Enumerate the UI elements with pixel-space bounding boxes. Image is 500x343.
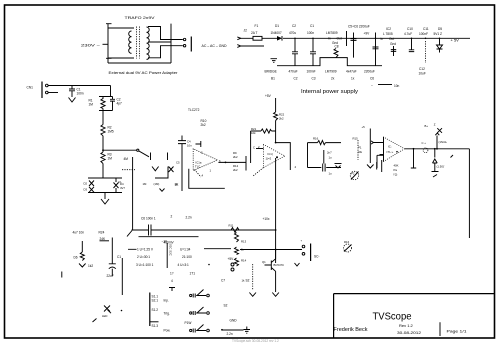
svg-text:~: ~ [371, 84, 373, 88]
wire output [405, 148, 470, 150]
connector CN1 [41, 82, 43, 99]
svg-text:1k2: 1k2 [88, 264, 93, 268]
svg-text:2k2: 2k2 [201, 123, 206, 127]
wire gnd 2.2n [221, 329, 223, 331]
node rail junction dots [294, 38, 440, 40]
transformer T1 primary winding [129, 31, 132, 53]
svg-text:Rev 1.2: Rev 1.2 [399, 323, 414, 328]
svg-text:S1C S2C: S1C S2C [169, 244, 173, 256]
wire divider tap [103, 136, 137, 152]
svg-text:P2: P2 [351, 172, 355, 176]
svg-text:D3: D3 [84, 188, 88, 192]
wire input [48, 86, 110, 97]
ground symbol [244, 327, 251, 334]
svg-text:Z: Z [434, 123, 436, 127]
wire mains lead [103, 43, 109, 45]
svg-text:+5V: +5V [228, 257, 235, 261]
svg-text:4M: 4M [124, 157, 129, 161]
svg-text:D5: D5 [438, 27, 442, 31]
svg-text:S2: S2 [224, 304, 228, 308]
svg-text:IC2: IC2 [386, 27, 391, 31]
diode D6 up [436, 148, 438, 150]
svg-text:U=1:34: U=1:34 [180, 247, 191, 251]
svg-text:4p7: 4p7 [117, 102, 123, 106]
svg-text:1)=2: 1)=2 [266, 157, 272, 161]
svg-text:10n: 10n [394, 84, 400, 88]
svg-text:BRIDGE: BRIDGE [265, 70, 277, 74]
svg-text:2x: 2x [331, 77, 335, 81]
svg-text:C5: C5 [176, 161, 180, 165]
svg-text:4u7 10n: 4u7 10n [73, 231, 85, 235]
svg-text:1: 1 [210, 169, 212, 173]
svg-text:C2: C2 [294, 77, 298, 81]
svg-text:230V ~: 230V ~ [81, 43, 101, 48]
ground mid [335, 163, 342, 165]
switch S1.3 labels [150, 321, 159, 323]
svg-text:LM7909: LM7909 [325, 70, 337, 74]
svg-text:C3: C3 [312, 77, 316, 81]
svg-text:FL: FL [119, 180, 123, 184]
svg-text:R11: R11 [229, 224, 234, 228]
svg-text:S2: S2 [246, 279, 250, 283]
selector bar [166, 243, 168, 268]
wire side branch [121, 258, 123, 295]
wire secondary top tap [148, 27, 183, 40]
svg-text:1?: 1? [170, 272, 174, 276]
resistor R22 [274, 112, 278, 121]
svg-text:3 U=1:100 1: 3 U=1:100 1 [136, 263, 154, 267]
op-amp U1A [193, 149, 217, 171]
connector J3 [302, 245, 305, 248]
ground clamp [101, 199, 109, 204]
wire clamp bottom [88, 193, 122, 200]
svg-text:30-08-2012: 30-08-2012 [397, 330, 422, 335]
mark [61, 272, 63, 278]
svg-text:100nF: 100nF [307, 70, 316, 74]
capacitor C1 [69, 86, 75, 98]
wire tap branch down [132, 157, 134, 230]
diode D1 [277, 36, 282, 41]
svg-text:1u: 1u [329, 172, 333, 176]
wire U1A output [218, 161, 246, 163]
svg-text:40K: 40K [394, 164, 399, 168]
svg-text:R24: R24 [99, 231, 105, 235]
capacitor C2a [110, 97, 115, 111]
svg-text:AC – AC – GND: AC – AC – GND [202, 44, 228, 48]
svg-text:C1: C1 [117, 255, 121, 259]
transformer T1 outline [106, 24, 171, 64]
svg-text:+ 5V: + 5V [451, 37, 460, 42]
svg-text:100n: 100n [307, 31, 314, 35]
wire secondary centre tap [148, 41, 171, 43]
svg-text:24K: 24K [100, 237, 107, 241]
svg-text:F1: F1 [255, 24, 259, 28]
svg-text:+5V: +5V [265, 94, 272, 98]
ground Q1 [272, 293, 279, 297]
mark small [433, 175, 437, 178]
svg-text:10k: 10k [358, 150, 363, 154]
svg-text:4x47uF: 4x47uF [346, 70, 357, 74]
title block frame [334, 294, 495, 338]
wire feedback L [189, 169, 225, 189]
svg-text:1N4007: 1N4007 [271, 31, 282, 35]
svg-text:1K: 1K [175, 183, 180, 187]
diode D3 clamp right [114, 178, 119, 193]
svg-text:1M: 1M [108, 157, 113, 161]
svg-text:IC:: IC: [388, 144, 392, 148]
svg-text:2k2: 2k2 [279, 117, 284, 121]
capacitor C10 [409, 38, 414, 51]
capacitor C2 [292, 38, 298, 65]
svg-text:(1.50)ʹ: (1.50)ʹ [437, 165, 445, 169]
svg-text:S2.1: S2.1 [152, 299, 159, 303]
svg-text:C7: C7 [221, 279, 225, 283]
svg-text:1T1: 1T1 [190, 272, 196, 276]
switch arm S2a [137, 149, 139, 151]
svg-text:=TL:+: =TL:+ [386, 150, 394, 154]
capacitor coupling [149, 225, 152, 236]
wire secondary bottom tap [148, 46, 183, 58]
resistor under regulator [334, 49, 338, 58]
switch contacts 2 [190, 312, 192, 314]
svg-text:Inp.: Inp. [164, 299, 169, 303]
svg-text:4.7uF: 4.7uF [404, 32, 412, 36]
svg-text:1u: 1u [329, 156, 333, 160]
capacitor C9 [109, 238, 116, 264]
resistor R2 [101, 125, 105, 136]
svg-text:2k2: 2k2 [233, 155, 238, 159]
LED D7 [104, 306, 111, 314]
wire psu gnd stub [378, 84, 392, 86]
svg-text:2k2: 2k2 [233, 168, 238, 172]
svg-text:C6: C6 [370, 77, 374, 81]
resistor R15 dashes [357, 140, 359, 160]
svg-text:BC547C: BC547C [274, 263, 285, 267]
fuse F1 [253, 36, 262, 40]
svg-text:1M: 1M [89, 103, 94, 107]
svg-text:2.2n: 2.2n [186, 216, 192, 220]
dashes left [122, 169, 135, 171]
dashed supply [194, 170, 201, 177]
svg-text:R16: R16 [344, 240, 350, 244]
resistor R11 [231, 228, 239, 233]
svg-text:4: 4 [171, 279, 173, 283]
svg-text:TLC272: TLC272 [188, 108, 200, 112]
op-amp U2 [383, 137, 385, 162]
capacitor C6 [373, 33, 379, 66]
capacitor under 7805 [391, 46, 396, 56]
svg-text:+: + [301, 239, 303, 243]
svg-text:470u: 470u [289, 31, 296, 35]
divider [439, 322, 441, 336]
capacitor C3 [310, 38, 316, 65]
svg-text:10k: 10k [251, 131, 256, 135]
svg-text:4: 4 [295, 165, 297, 169]
svg-text:C12: C12 [419, 67, 425, 71]
ground small [160, 189, 165, 192]
svg-text:2: 2 [171, 215, 173, 219]
svg-text:1 U=1:25 V: 1 U=1:25 V [137, 247, 154, 251]
svg-text:Page 1/1: Page 1/1 [447, 329, 468, 334]
svg-text:P1: P1 [358, 146, 362, 150]
wire ground mid rail [277, 58, 382, 66]
svg-text:Pow.: Pow. [164, 329, 171, 333]
svg-text:B1: B1 [271, 77, 275, 81]
connector J1 pins [183, 38, 185, 40]
svg-text:R16: R16 [313, 137, 319, 141]
diode D7 down [434, 148, 436, 150]
svg-text:2A T: 2A T [251, 31, 258, 35]
svg-text:Pa: Pa [394, 168, 398, 172]
svg-text:+9V: +9V [364, 32, 371, 36]
feedback network box [308, 143, 342, 168]
svg-text:External dual 9V AC Power Adap: External dual 9V AC Power Adapter [109, 70, 179, 75]
svg-text:C +: C + [422, 141, 427, 145]
svg-text:2n7: 2n7 [327, 151, 332, 155]
svg-text:B+: B+ [425, 124, 429, 128]
svg-text:1M5: 1M5 [108, 130, 114, 134]
svg-text:1M: 1M [143, 182, 148, 186]
svg-text:C6 100n 1: C6 100n 1 [141, 217, 156, 221]
wire to clamp row [88, 164, 122, 179]
wire cn1 lower stub [48, 92, 58, 94]
svg-text:GND: GND [230, 319, 238, 323]
switch arm left [127, 231, 132, 237]
resistor R1 [101, 97, 105, 109]
svg-text:P1W: P1W [185, 321, 192, 325]
wire output drop [468, 149, 470, 238]
svg-text:D1: D1 [275, 24, 279, 28]
svg-text:LM7809: LM7809 [326, 31, 338, 35]
svg-text:TVScope.sch 30-08-2012 rev 1: TVScope.sch 30-08-2012 rev 1.2 [232, 339, 279, 343]
svg-text:470uF: 470uF [289, 70, 298, 74]
wire contact bracket [155, 167, 168, 179]
svg-text:R15: R15 [353, 137, 359, 141]
svg-text:Q1: Q1 [262, 260, 266, 264]
wire U1B top feed [276, 143, 291, 170]
svg-text:1x: 1x [351, 77, 355, 81]
svg-text:TVScope: TVScope [373, 312, 412, 323]
svg-text:In: In [328, 36, 331, 40]
diode at contact 1 [152, 167, 159, 171]
svg-text:+5: +5 [362, 125, 366, 129]
wire pin2 stub [196, 141, 201, 147]
svg-text:2 U=30:1: 2 U=30:1 [137, 255, 150, 259]
switch bank bar [149, 293, 151, 327]
svg-text:C: C [253, 146, 255, 150]
svg-text:Trig.: Trig. [164, 312, 170, 316]
wire U1B output down [275, 158, 277, 263]
transformer T1 secondary winding [147, 27, 150, 59]
ground P1 [367, 165, 374, 169]
svg-text:C2: C2 [292, 24, 296, 28]
svg-text:R14: R14 [241, 259, 247, 263]
svg-text:D2: D2 [84, 182, 88, 186]
wire raw AC top rail [240, 37, 470, 39]
svg-text:10uF: 10uF [419, 72, 426, 76]
ground bridge [271, 59, 278, 63]
wire lower [139, 236, 199, 238]
svg-text:C5+C6 2200uF: C5+C6 2200uF [348, 25, 370, 29]
resistor D6 chain [81, 241, 83, 252]
inverting stub [381, 160, 383, 172]
transistor Q1 [265, 250, 276, 293]
svg-text:C1: C1 [310, 24, 314, 28]
wire to U1B [275, 121, 277, 143]
svg-text:C11: C11 [423, 27, 429, 31]
wire AC coupling [132, 229, 276, 231]
svg-text:Internal power supply: Internal power supply [301, 89, 359, 95]
wire main out row [240, 249, 302, 251]
svg-text:C10: C10 [407, 27, 413, 31]
svg-text:100n: 100n [77, 92, 84, 96]
svg-text:L 7805: L 7805 [383, 32, 393, 36]
wire raw AC lower lead [240, 45, 264, 47]
svg-text:Out: Out [337, 36, 342, 40]
contact posts [151, 153, 168, 161]
svg-text:S1.3: S1.3 [152, 324, 159, 328]
svg-text:Gnd: Gnd [390, 42, 396, 46]
svg-text:R13: R13 [241, 240, 247, 244]
transformer T1 core [137, 27, 140, 59]
svg-text:Out: Out [389, 37, 394, 41]
resistor R3 [101, 152, 105, 164]
svg-text:100nF: 100nF [419, 32, 428, 36]
capacitor C11 [425, 41, 427, 63]
svg-text:2.2n: 2.2n [227, 332, 233, 336]
svg-text:(1M): (1M) [154, 182, 160, 186]
svg-text:LED: LED [102, 314, 107, 318]
wire stub [245, 156, 247, 171]
svg-text:+10x: +10x [263, 217, 270, 221]
svg-text:D6: D6 [74, 256, 78, 260]
op-amp U1B [264, 145, 286, 168]
svg-text:(1N41›: (1N41› [439, 140, 448, 144]
diode D1a clamp [89, 181, 94, 187]
svg-text:J2: J2 [244, 29, 248, 33]
connector J1 body [190, 37, 192, 52]
svg-text:10n: 10n [187, 144, 192, 148]
wire divider mid [102, 111, 104, 125]
transistor Q2 circle [423, 148, 428, 153]
svg-text:4 U=3:1: 4 U=3:1 [178, 263, 189, 267]
svg-text:Frederik Beck: Frederik Beck [334, 327, 369, 333]
capacitor to gnd right [377, 155, 384, 169]
svg-text:~10: ~10 [162, 240, 168, 244]
resistor R16 [318, 141, 326, 145]
svg-text:TRAFO 2x9V: TRAFO 2x9V [125, 15, 155, 20]
svg-text:22uF: 22uF [107, 274, 114, 278]
capacitor C5 [351, 33, 357, 58]
svg-text:TLC: TLC [195, 165, 200, 169]
svg-text:2200uF: 2200uF [364, 70, 375, 74]
svg-text:CN1: CN1 [27, 86, 34, 90]
connector J2 pins [237, 37, 240, 48]
wire +5V drop [275, 98, 277, 112]
diode D2 clamp [89, 187, 94, 193]
svg-text:2: 2 [201, 151, 203, 155]
trimmer P2 [350, 171, 358, 179]
svg-text:4V7: 4V7 [120, 186, 125, 190]
svg-text:SC-: SC- [314, 255, 320, 259]
capacitor output stub [411, 149, 416, 168]
mark chevron [295, 263, 300, 266]
diode at contact 2 [169, 167, 174, 173]
svg-text:S1.2: S1.2 [152, 308, 159, 312]
svg-text:Y2): Y2) [393, 173, 397, 177]
divider split [99, 97, 113, 111]
svg-text:5V1 Z: 5V1 Z [434, 32, 443, 36]
wire cap line [250, 131, 252, 163]
capacitor C12 [323, 150, 325, 172]
svg-text:IC1(: IC1( [268, 152, 273, 156]
wire inverting rail [178, 136, 186, 192]
svg-text:21:100: 21:100 [182, 255, 192, 259]
svg-text:C8: C8 [335, 45, 339, 49]
switch contacts 1 [190, 294, 192, 296]
svg-text:4: 4 [202, 174, 204, 178]
resistor chain right [235, 233, 239, 243]
ground under C1 [69, 98, 76, 103]
resistor R18 [252, 264, 254, 290]
svg-text:In: In [381, 37, 384, 41]
zener D5 [439, 38, 441, 45]
wire row1 [128, 248, 231, 251]
